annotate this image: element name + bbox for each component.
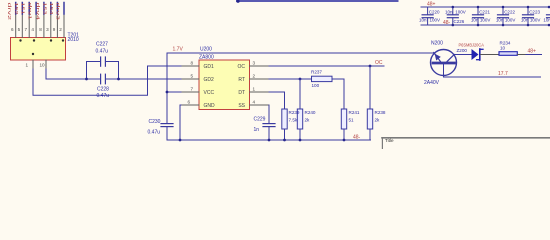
- svg-text:C226: C226: [454, 19, 465, 24]
- svg-text:48+: 48+: [427, 2, 436, 8]
- svg-text:100V: 100V: [430, 18, 441, 23]
- wire R239 bottom: [284, 129, 286, 140]
- svg-text:C229: C229: [254, 117, 266, 123]
- pin 1 bottom stub: [32, 60, 34, 69]
- svg-text:OC: OC: [375, 60, 383, 66]
- svg-text:C222: C222: [504, 10, 515, 15]
- svg-text:R239: R239: [289, 110, 300, 115]
- svg-text:OC: OC: [238, 64, 246, 70]
- svg-text:C221: C221: [479, 10, 490, 15]
- node 48+ top rail: [421, 6, 550, 8]
- wire C229 bottom: [268, 127, 270, 140]
- svg-text:2: 2: [253, 74, 256, 79]
- svg-text:17.7: 17.7: [498, 71, 508, 77]
- svg-text:GD2: GD2: [204, 77, 215, 83]
- wire pin10 to GD2: [46, 69, 100, 79]
- svg-text:2010: 2010: [68, 37, 79, 43]
- svg-text:4: 4: [31, 27, 34, 32]
- capacitor C229: [263, 123, 275, 125]
- pin 5 top stub: [21, 14, 23, 38]
- svg-text:RT: RT: [238, 77, 245, 83]
- svg-text:100V: 100V: [505, 18, 516, 23]
- capacitor C227 plates: [100, 57, 102, 66]
- capacitor C228 plates: [100, 74, 102, 84]
- svg-text:48+: 48+: [528, 49, 537, 55]
- transistor N200: [431, 50, 457, 76]
- ground rail: [167, 139, 371, 141]
- svg-text:C220: C220: [429, 10, 440, 15]
- diode Z200 TVS: [472, 49, 479, 60]
- svg-text:GD1: GD1: [204, 64, 215, 70]
- svg-text:152: 152: [13, 3, 19, 15]
- capacitor C222: [498, 7, 509, 25]
- wire RT net: [250, 78, 312, 80]
- resistor R240: [297, 109, 302, 129]
- resistor R237: [312, 76, 333, 81]
- svg-text:2k: 2k: [305, 118, 311, 123]
- svg-text:7: 7: [25, 27, 28, 32]
- svg-text:U200: U200: [200, 47, 212, 53]
- svg-text:Title: Title: [385, 138, 394, 143]
- svg-text:SS: SS: [238, 103, 245, 109]
- resistor R238: [367, 109, 372, 129]
- svg-text:R237: R237: [311, 70, 322, 75]
- capacitor C223: [523, 7, 534, 25]
- svg-text:10n: 10n: [521, 18, 529, 23]
- svg-text:1n: 1n: [254, 127, 260, 133]
- capacitor C221: [473, 7, 484, 25]
- wire N200 collector to diode: [454, 54, 472, 56]
- transformer polarity dots: [19, 39, 21, 41]
- junction C229: [268, 139, 271, 142]
- node 48+ stub: [526, 54, 542, 56]
- svg-text:R238: R238: [375, 110, 386, 115]
- svg-text:drv3: drv3: [55, 3, 61, 21]
- svg-text:153: 153: [41, 3, 47, 15]
- node 1.7V wire: [167, 52, 434, 54]
- resistor R241: [341, 109, 346, 129]
- resistor R239: [282, 109, 287, 129]
- title block border: [382, 137, 550, 139]
- junction R239: [283, 139, 286, 142]
- pin 6 top stub: [15, 14, 17, 38]
- svg-text:48-: 48-: [353, 135, 361, 141]
- resistor R234: [499, 52, 517, 56]
- svg-text:6: 6: [11, 27, 14, 32]
- wire R240 bottom: [299, 129, 301, 140]
- svg-text:7: 7: [190, 87, 193, 92]
- svg-text:48-: 48-: [443, 20, 451, 26]
- svg-text:2: 2: [59, 27, 62, 32]
- svg-text:GND: GND: [204, 103, 216, 109]
- capacitor C230: [161, 123, 173, 125]
- capacitor C226: [447, 7, 458, 25]
- svg-text:drv1: drv1: [27, 3, 33, 21]
- svg-text:R241: R241: [349, 110, 360, 115]
- svg-text:2A40V: 2A40V: [424, 80, 440, 86]
- svg-text:10n: 10n: [543, 18, 550, 23]
- svg-text:3: 3: [46, 27, 49, 32]
- svg-text:R240: R240: [305, 110, 316, 115]
- svg-text:3: 3: [253, 61, 256, 66]
- wire VCC pin: [167, 91, 199, 93]
- svg-text:100V: 100V: [530, 18, 541, 23]
- op-amp U200 body: [199, 60, 250, 110]
- U200 pin leads: [182, 66, 268, 105]
- svg-text:7.5k: 7.5k: [289, 118, 298, 123]
- svg-text:C227: C227: [96, 42, 108, 48]
- svg-text:8: 8: [39, 27, 42, 32]
- svg-text:100V: 100V: [455, 10, 466, 15]
- junction loop-right: [117, 78, 120, 81]
- pin 10 bottom stub: [45, 60, 47, 69]
- wire OC net: [250, 65, 385, 67]
- svg-text:9: 9: [53, 27, 56, 32]
- svg-text:5: 5: [190, 74, 193, 79]
- svg-text:151: 151: [20, 3, 26, 15]
- pin 2 top stub: [63, 14, 65, 38]
- svg-text:Z200: Z200: [457, 48, 468, 53]
- junction RT/R240: [299, 78, 302, 81]
- svg-text:5: 5: [18, 27, 21, 32]
- svg-text:10n: 10n: [496, 18, 504, 23]
- svg-text:100: 100: [312, 83, 320, 88]
- svg-text:10n: 10n: [419, 18, 427, 23]
- svg-text:0.47u: 0.47u: [97, 93, 110, 99]
- svg-text:N200: N200: [431, 41, 443, 47]
- wire pin1 to GD1: [33, 66, 199, 95]
- junction OC/R238: [369, 65, 372, 68]
- pin 9 top stub: [56, 14, 58, 38]
- wire R241 bottom: [343, 129, 345, 140]
- wire diode to R234: [481, 54, 500, 56]
- svg-text:1.7V: 1.7V: [173, 47, 184, 53]
- capacitor C227 loop: [87, 62, 101, 80]
- capacitor C224 edge: [547, 7, 550, 18]
- transformer T201 body: [11, 38, 66, 61]
- wire GD2 segment right of C228: [106, 78, 199, 80]
- svg-text:10: 10: [40, 63, 46, 68]
- svg-text:51: 51: [349, 118, 355, 123]
- svg-text:10n: 10n: [471, 18, 479, 23]
- svg-text:1: 1: [26, 63, 29, 68]
- svg-text:drv4: drv4: [34, 3, 40, 21]
- wire R240 top: [299, 79, 301, 109]
- svg-text:P6SMBJ20CA: P6SMBJ20CA: [459, 43, 484, 48]
- svg-text:10n: 10n: [445, 10, 453, 15]
- svg-text:ZA800: ZA800: [199, 55, 214, 61]
- junction loop-left: [85, 78, 88, 81]
- wire top edge net: [237, 0, 398, 2]
- svg-text:154: 154: [48, 3, 54, 15]
- wire VCC riser: [166, 53, 168, 123]
- pin 8 top stub: [43, 14, 45, 38]
- svg-text:C230: C230: [149, 119, 161, 125]
- svg-text:VCC: VCC: [204, 90, 215, 96]
- junction R241: [343, 139, 346, 142]
- svg-text:drv2: drv2: [6, 3, 12, 21]
- capacitor C220: [422, 7, 433, 25]
- junction GND: [179, 139, 182, 142]
- svg-text:6: 6: [187, 100, 190, 105]
- wire N200 base: [444, 64, 541, 77]
- svg-text:10: 10: [500, 46, 506, 51]
- pin 4 top stub: [35, 14, 37, 38]
- svg-text:C223: C223: [529, 10, 540, 15]
- wire GND pin: [180, 105, 199, 140]
- pin 7 top stub: [28, 14, 30, 38]
- wire R238 top: [369, 66, 371, 109]
- svg-text:0.47u: 0.47u: [96, 49, 109, 55]
- wire SS net: [250, 105, 270, 123]
- svg-text:C228: C228: [97, 87, 109, 93]
- svg-text:8: 8: [190, 61, 193, 66]
- junction R240: [299, 139, 302, 142]
- node 48- bottom rail: [421, 24, 550, 26]
- wire R234 right: [517, 54, 526, 56]
- junction VCC: [166, 91, 169, 94]
- svg-text:100V: 100V: [480, 18, 491, 23]
- wire DT net: [250, 92, 285, 109]
- pin 3 top stub: [50, 14, 52, 38]
- svg-text:0.47u: 0.47u: [148, 130, 161, 136]
- svg-text:2k: 2k: [375, 118, 381, 123]
- wire R237 to R241: [332, 79, 344, 109]
- wire R238 bottom: [369, 129, 371, 140]
- svg-text:DT: DT: [238, 90, 245, 96]
- svg-text:1: 1: [253, 87, 256, 92]
- svg-text:4: 4: [253, 100, 256, 105]
